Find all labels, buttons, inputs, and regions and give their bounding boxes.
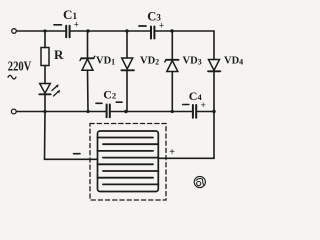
capacitor C1 (66, 26, 69, 38)
label C2 (103, 87, 116, 101)
electrode grid enclosure (dashed) (90, 124, 166, 201)
electrode comb finger 2 (103, 143, 158, 145)
node E (VD1 bottom / C2 left) (86, 110, 89, 113)
label C3 minus (139, 25, 146, 27)
svg-text:+: + (201, 100, 206, 110)
wire bottom rail: node D to node E (45, 111, 88, 113)
label VD3 (183, 56, 202, 67)
diode VD4 (208, 31, 220, 112)
label R (54, 47, 64, 62)
wire output positive: node H down to grid (158, 112, 214, 159)
electrode comb finger 4 (103, 157, 158, 159)
label VD2 (140, 56, 159, 67)
diode VD3 (165, 31, 179, 112)
electrode comb finger 6 (103, 170, 158, 172)
node H (VD4 bottom corner) (212, 110, 215, 113)
svg-text:R: R (54, 47, 64, 62)
wire top rail: node R to C1 (45, 30, 66, 32)
capacitor C2 (107, 105, 110, 118)
label grid minus (74, 153, 81, 155)
svg-text:C2: C2 (103, 87, 116, 101)
wire top rail: node A to node B (88, 30, 127, 32)
label VD1 (96, 56, 115, 67)
node A (C1 / VD1 top) (86, 29, 89, 32)
terminal IN2 (220V bottom input) (11, 109, 16, 114)
label C3 plus (159, 20, 164, 30)
terminal IN1 (220V top input) (12, 29, 17, 34)
diode VD1 (80, 31, 95, 112)
label C1 plus (74, 20, 79, 30)
label C4 (189, 89, 203, 103)
wire bottom rail: terminal to node D (16, 111, 45, 113)
label grid plus (169, 147, 175, 158)
electrode grid frame (98, 131, 159, 192)
svg-text:VD4: VD4 (224, 56, 243, 67)
wire bottom rail: C4 to VD4 corner (197, 111, 214, 113)
svg-text:VD1: VD1 (96, 56, 115, 67)
label tilde AC (8, 75, 16, 79)
wire R to LED (44, 66, 46, 84)
diode VD2 (121, 31, 134, 112)
wire bottom rail: C2 to node F (110, 111, 126, 113)
label C3 (147, 9, 161, 23)
svg-text:+: + (169, 147, 175, 158)
wire bottom rail: node G to C4 (172, 111, 192, 113)
svg-text:220V: 220V (8, 59, 32, 74)
wire bottom rail: node E to C2 (88, 111, 106, 113)
node G (VD3 bottom / C4 left) (171, 110, 174, 113)
resistor R (41, 31, 49, 66)
node D (LED bottom / grid left drop) (43, 110, 46, 113)
LED indicator (39, 84, 60, 97)
capacitor C4 (193, 105, 196, 118)
svg-text:+: + (74, 20, 79, 30)
label C4 plus (201, 100, 206, 110)
node B (VD2 top / C3 left) (125, 29, 128, 32)
electrode comb finger 7 (98, 177, 154, 179)
label C2 minus (96, 102, 102, 104)
svg-text:VD2: VD2 (140, 56, 159, 67)
node F (VD2 bottom) (124, 110, 127, 113)
wire LED to bottom rail (44, 94, 46, 111)
wire top rail: terminal to node R (17, 30, 46, 32)
wire top rail: C3 to node C (155, 30, 173, 32)
label C2 plus (116, 101, 122, 103)
figure label a (circled) (194, 176, 205, 187)
node C (VD3 top) (170, 29, 173, 32)
label 220V (8, 59, 32, 74)
label VD4 (224, 56, 243, 67)
label C4 minus (183, 104, 189, 106)
wire top rail: C1 to node A (70, 30, 88, 32)
wire top rail: node C to VD4 corner (172, 30, 214, 32)
wire top rail: node B to C3 (127, 30, 151, 32)
label C1 (63, 7, 77, 22)
wire output negative: node D down to grid (45, 112, 98, 160)
capacitor C3 (151, 27, 154, 39)
electrode comb finger 1 (98, 137, 154, 139)
svg-text:+: + (159, 20, 164, 30)
electrode comb finger 8 (103, 183, 158, 185)
electrode comb finger 3 (98, 150, 154, 152)
node junction R top (43, 29, 46, 32)
label C1 minus (54, 24, 62, 26)
svg-text:VD3: VD3 (183, 56, 202, 67)
wire bottom rail: node F to node G (126, 111, 172, 113)
electrode comb finger 5 (98, 163, 154, 165)
